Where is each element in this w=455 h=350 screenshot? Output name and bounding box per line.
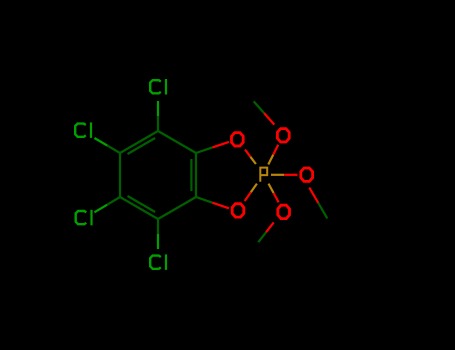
atom label O5 (bottom methoxy)	[278, 205, 290, 218]
bond O4-CH3 (methyl)	[309, 188, 327, 219]
atom label Cl (bottom)	[150, 254, 166, 270]
bond O5-CH3 (methyl)	[258, 222, 273, 242]
bond C3-O2	[196, 197, 229, 208]
bond C1-Cl1	[157, 101, 159, 131]
bond P-O4	[271, 174, 298, 176]
bond O1-P	[245, 150, 256, 165]
bond P-O3	[268, 145, 278, 165]
atom label O4 (right methoxy)	[301, 168, 313, 181]
bond C4-Cl4	[157, 219, 159, 249]
atom label P (phosphorus)	[260, 168, 267, 182]
atom label Cl (top)	[150, 79, 166, 95]
bond C2-O1	[196, 142, 229, 153]
atom label Cl (lower-left)	[76, 210, 92, 226]
bond O3-CH3 (methyl)	[254, 101, 275, 124]
atom label O2 (dioxole ring bottom)	[232, 204, 244, 217]
bond C5-Cl2	[94, 138, 120, 153]
atom label O1 (dioxole ring top)	[232, 133, 244, 146]
bond C6-Cl3	[94, 197, 120, 212]
bond P-O5	[269, 184, 279, 203]
atom label O3 (top methoxy)	[277, 129, 289, 142]
benzene ring C1-C6 (tetrachlorobenzene ring)	[120, 131, 196, 219]
bond O2-P	[245, 184, 257, 201]
atom label Cl (upper-left)	[75, 122, 91, 137]
